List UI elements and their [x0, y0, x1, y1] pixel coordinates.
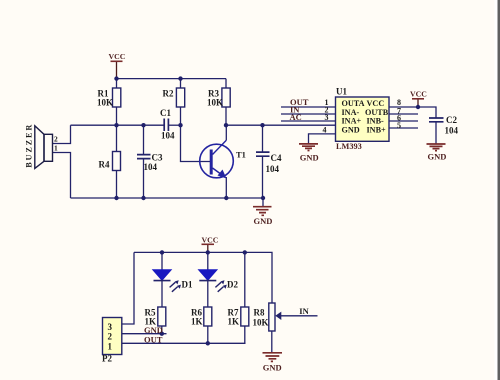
svg-text:OUTB: OUTB — [365, 108, 389, 117]
op-amp U1 chip body — [336, 97, 390, 141]
vcc symbol top — [111, 60, 123, 62]
node gnd mid — [261, 196, 265, 200]
resistor R6 — [204, 307, 212, 326]
capacitor C3 — [137, 155, 151, 159]
svg-text:INA+: INA+ — [342, 117, 362, 126]
svg-text:BUZZER: BUZZER — [25, 123, 34, 168]
wire emitter down — [225, 177, 227, 198]
resistor R7 leads — [244, 252, 246, 343]
svg-text:GND: GND — [263, 362, 282, 372]
wire bottom rail — [71, 197, 264, 199]
node r2 bottom — [178, 123, 182, 127]
svg-text:4: 4 — [323, 126, 327, 135]
svg-text:104: 104 — [161, 131, 175, 141]
resistor R1 leads — [116, 79, 118, 126]
svg-text:D2: D2 — [227, 280, 238, 290]
svg-text:VCC: VCC — [367, 99, 385, 108]
vcc stem right — [417, 99, 419, 107]
node r7 rail — [243, 250, 247, 254]
ground left of chip — [299, 144, 318, 151]
svg-text:GND: GND — [300, 153, 319, 163]
wire buzzer pin1 — [53, 153, 71, 199]
node collector — [224, 123, 228, 127]
vcc stem top — [116, 61, 118, 78]
wire pin5 — [389, 127, 418, 129]
capacitor C4 leads — [262, 125, 264, 198]
wire P2 pin3 up — [122, 252, 134, 324]
capacitor C3 leads — [143, 125, 145, 198]
node d1 rail — [160, 250, 164, 254]
resistor R2 leads — [180, 79, 182, 126]
ground right — [427, 144, 446, 151]
ground mid — [253, 207, 272, 216]
svg-text:INB+: INB+ — [367, 125, 387, 134]
node vcc bottom — [206, 250, 210, 254]
svg-text:C4: C4 — [271, 153, 282, 163]
capacitor C2 lead — [435, 122, 437, 144]
wire collector up — [225, 125, 227, 140]
node c3 top — [141, 123, 145, 127]
led D1 — [153, 270, 181, 292]
svg-text:3: 3 — [325, 113, 329, 122]
capacitor C1 — [164, 119, 168, 132]
wire pin6 — [389, 120, 418, 122]
svg-text:AC: AC — [290, 112, 302, 122]
svg-text:IN: IN — [299, 306, 309, 316]
wire node A right of C1 — [168, 124, 180, 126]
wire node A left — [71, 124, 165, 126]
svg-text:INA-: INA- — [342, 108, 360, 117]
svg-text:2: 2 — [54, 135, 58, 144]
gnd stem mid — [262, 198, 264, 207]
wire top rail — [117, 78, 227, 80]
wire pin7 — [389, 113, 418, 115]
led D1 leads — [161, 252, 163, 307]
wire P2 pin1 out net — [122, 342, 246, 344]
node c3 bottom — [141, 196, 145, 200]
svg-text:VCC: VCC — [202, 236, 219, 245]
ground bottom right — [263, 353, 283, 362]
wire base of T1 — [181, 125, 211, 161]
svg-text:GND: GND — [342, 125, 360, 134]
wire P2 pin2 gnd net — [122, 333, 167, 335]
node r6 out — [206, 341, 210, 345]
resistor R4 leads — [116, 125, 118, 198]
svg-text:10K: 10K — [207, 98, 223, 108]
svg-text:1: 1 — [54, 144, 58, 153]
resistor R2 — [176, 88, 184, 107]
svg-text:5: 5 — [397, 121, 401, 130]
svg-text:1K: 1K — [191, 317, 203, 327]
svg-text:R4: R4 — [99, 160, 110, 170]
svg-text:2: 2 — [108, 332, 113, 342]
svg-text:P2: P2 — [102, 354, 112, 364]
node r5 gnd — [160, 332, 164, 336]
vcc stem bottom — [207, 244, 209, 252]
connector P2 — [103, 318, 122, 355]
led D2 — [199, 270, 227, 292]
svg-text:U1: U1 — [336, 87, 347, 97]
svg-text:10K: 10K — [253, 318, 269, 328]
node vcc-r1 — [114, 76, 118, 80]
wire pin2 IN label — [281, 113, 336, 115]
svg-text:GND: GND — [144, 325, 163, 335]
resistor R5 — [158, 307, 166, 326]
svg-text:R2: R2 — [163, 89, 174, 99]
right window edge — [495, 0, 498, 380]
svg-text:OUT: OUT — [144, 335, 163, 345]
svg-text:1K: 1K — [228, 317, 240, 327]
svg-text:104: 104 — [445, 126, 459, 136]
svg-text:C2: C2 — [446, 115, 457, 125]
wire pin4 to gnd — [309, 134, 336, 144]
svg-text:C3: C3 — [152, 153, 163, 163]
node r1 bottom — [114, 123, 118, 127]
capacitor C2 — [429, 118, 444, 122]
svg-text:VCC: VCC — [410, 90, 427, 99]
svg-text:1: 1 — [108, 341, 113, 351]
resistor R3 — [222, 88, 230, 107]
svg-text:GND: GND — [254, 216, 273, 226]
node r4 bottom — [114, 196, 118, 200]
resistor R3 leads — [225, 79, 227, 126]
wire pin1 OUT label — [281, 106, 336, 108]
node c4 top — [260, 123, 264, 127]
svg-text:GND: GND — [428, 152, 447, 162]
potentiometer R8 — [269, 303, 275, 331]
svg-text:OUTA: OUTA — [342, 99, 365, 108]
capacitor C4 — [256, 152, 270, 156]
svg-text:D1: D1 — [182, 280, 193, 290]
node r2 top — [178, 76, 182, 80]
wire bottom section rail — [134, 252, 272, 303]
resistor R8 leads — [271, 331, 273, 353]
buzzer — [35, 126, 53, 169]
svg-text:VCC: VCC — [109, 52, 126, 61]
wire buzzer pin2 — [53, 125, 71, 143]
svg-text:T1: T1 — [236, 149, 246, 159]
wire pin8 vcc — [389, 107, 436, 118]
svg-text:104: 104 — [144, 162, 158, 172]
wire IN to R8 wiper — [279, 315, 318, 317]
resistor R5 lead — [161, 326, 163, 334]
vcc symbol right — [412, 98, 424, 100]
svg-text:INB-: INB- — [367, 117, 385, 126]
svg-text:10K: 10K — [97, 98, 113, 108]
transistor T1 — [200, 140, 234, 178]
wire pin3 AC label — [281, 120, 336, 122]
node emitter — [224, 196, 228, 200]
svg-text:R8: R8 — [254, 308, 265, 318]
chip pin names — [342, 99, 389, 134]
vcc symbol bottom — [202, 243, 215, 245]
node vcc right — [416, 105, 420, 109]
svg-text:LM393: LM393 — [336, 142, 362, 151]
resistor R4 — [113, 152, 121, 171]
wire collector node — [226, 124, 336, 126]
resistor R1 — [113, 88, 121, 107]
svg-text:104: 104 — [266, 164, 280, 174]
resistor R7 — [241, 307, 249, 326]
svg-text:3: 3 — [108, 322, 113, 332]
led D2 leads — [207, 252, 209, 307]
svg-text:C1: C1 — [160, 108, 171, 118]
resistor R6 lead — [207, 326, 209, 343]
